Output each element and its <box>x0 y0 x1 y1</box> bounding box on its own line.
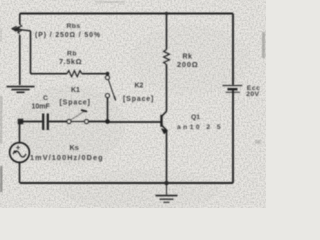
switch K1 (horizontal, on base wire) <box>67 110 89 124</box>
label K1 [Space] <box>60 100 91 107</box>
wire top rail <box>20 13 233 15</box>
label C <box>43 95 48 102</box>
svg-text:Q1: Q1 <box>191 114 200 121</box>
node top rail junction <box>165 12 169 16</box>
svg-text:Ks: Ks <box>70 143 79 152</box>
label Rk <box>183 54 193 61</box>
wire collector lead <box>166 65 168 112</box>
svg-text:Rbs: Rbs <box>67 23 81 30</box>
wire base line left of capacitor <box>21 121 43 123</box>
ground (bottom center) <box>156 183 178 202</box>
resistor Rb 7.5k zigzag <box>67 71 82 77</box>
scan artifacts <box>0 1 265 192</box>
svg-text:an10 2 5: an10 2 5 <box>177 124 223 131</box>
paper background <box>0 0 266 210</box>
node base junction <box>105 119 110 124</box>
switch K2 (vertical) <box>105 74 115 122</box>
label K2 [Space] <box>123 96 154 103</box>
label K2 <box>135 83 144 90</box>
wire bottom rail <box>20 182 233 184</box>
battery Ecc <box>223 86 243 93</box>
wire right vertical (battery branch) <box>232 14 234 184</box>
label Q1 <box>191 114 200 121</box>
label 20V <box>246 91 259 98</box>
svg-text:(P) / 250Ω / 50%: (P) / 250Ω / 50% <box>35 32 101 39</box>
label Ecc <box>247 85 261 92</box>
wire base bias horizontal <box>31 73 108 75</box>
svg-text:20V: 20V <box>246 91 259 98</box>
label source value 1mV/100Hz/0Deg <box>30 153 104 162</box>
wire source corner node <box>18 119 24 125</box>
svg-text:10mF: 10mF <box>32 103 51 110</box>
svg-text:1mV/100Hz/0Deg: 1mV/100Hz/0Deg <box>30 153 104 162</box>
wire left vertical (pot branch) <box>19 14 21 86</box>
wire K1 to base junction and transistor <box>89 121 161 124</box>
node emitter-ground junction <box>164 181 169 186</box>
label Q1 model <box>177 124 223 131</box>
source Ks (AC sine source) <box>10 122 30 183</box>
label 10mF <box>32 103 51 110</box>
label Rbs <box>67 23 81 30</box>
svg-text:200Ω: 200Ω <box>177 60 198 69</box>
label Rb <box>67 50 77 57</box>
resistor Rk 200 zigzag (vertical) <box>164 50 170 65</box>
svg-text:[Space]: [Space] <box>123 96 154 103</box>
node corner at K2 top <box>106 72 110 76</box>
capacitor C 10mF <box>43 114 48 131</box>
potentiometer Rbs wiper arrow <box>12 26 31 31</box>
label Ks <box>70 143 79 152</box>
svg-text:C: C <box>43 95 48 102</box>
label 7.5kOhm <box>59 57 82 66</box>
wire capacitor to K1 <box>49 121 67 123</box>
label 200Ohm <box>177 60 198 69</box>
svg-text:7.5kΩ: 7.5kΩ <box>59 57 82 66</box>
transistor Q1 <box>162 111 168 134</box>
wire wiper down to Rb <box>30 31 32 74</box>
wire Rk to top rail <box>166 14 168 50</box>
label K1 <box>71 87 80 94</box>
svg-text:[Space]: [Space] <box>60 100 91 107</box>
ground (left, under potentiometer) <box>7 87 35 93</box>
svg-text:K1: K1 <box>71 87 80 94</box>
potentiometer Rbs body <box>18 25 22 34</box>
wire emitter lead <box>166 131 168 183</box>
label pot value (P)/250/50% <box>35 32 101 39</box>
svg-text:K2: K2 <box>135 83 144 90</box>
